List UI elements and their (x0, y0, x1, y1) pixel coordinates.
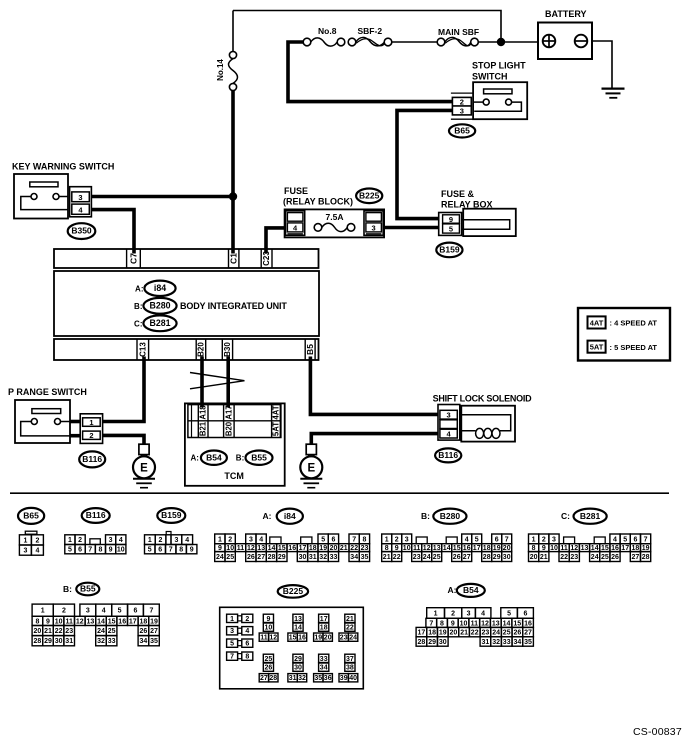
svg-text:6: 6 (245, 641, 249, 648)
body integrated unit: BODY INTEGRATED UNIT main box (54, 271, 319, 336)
svg-text:P RANGE SWITCH: P RANGE SWITCH (8, 387, 87, 397)
svg-text:24: 24 (216, 554, 224, 561)
svg-text:BATTERY: BATTERY (545, 9, 587, 19)
svg-text:24: 24 (423, 554, 431, 561)
wire: key warning switch pin3 to No.14 junction (thick) (91, 195, 233, 199)
svg-text:B54: B54 (463, 585, 479, 595)
svg-text:26: 26 (514, 630, 522, 637)
svg-text:16: 16 (118, 618, 126, 625)
legend box: 4AT / 5AT speed note (578, 308, 670, 361)
svg-text:2: 2 (159, 537, 163, 544)
connector pinout C: B281 (529, 509, 651, 562)
svg-text:20: 20 (530, 554, 538, 561)
svg-text:26: 26 (453, 554, 461, 561)
fuse SBF-2 (slow blow) (348, 37, 392, 45)
svg-text:SBF-2: SBF-2 (358, 26, 383, 36)
svg-text:21: 21 (340, 545, 348, 552)
svg-text:No.8: No.8 (318, 26, 337, 36)
svg-text:B5: B5 (305, 344, 315, 355)
svg-text:20: 20 (324, 635, 332, 642)
svg-text:3: 3 (552, 536, 556, 543)
svg-text:B:: B: (421, 511, 430, 521)
svg-text:24: 24 (97, 628, 105, 635)
svg-text:17: 17 (129, 618, 137, 625)
svg-text:1: 1 (23, 537, 27, 544)
svg-text:7: 7 (352, 536, 356, 543)
svg-text:37: 37 (346, 656, 354, 663)
svg-text:17: 17 (418, 630, 426, 637)
svg-text:4: 4 (245, 628, 249, 635)
svg-text:14: 14 (294, 625, 302, 632)
svg-text:28: 28 (642, 554, 650, 561)
connector pinout A: B54 (416, 584, 533, 646)
wire: shift lock solenoid pin4 to ground E (thick) (311, 434, 438, 445)
svg-text:18: 18 (428, 630, 436, 637)
svg-text:No.14: No.14 (216, 59, 225, 81)
svg-text:28: 28 (418, 639, 426, 646)
svg-text:18: 18 (320, 625, 328, 632)
connector pins 2/3 of stop light switch (451, 93, 473, 119)
svg-text:7.5A: 7.5A (326, 212, 344, 222)
svg-text:5: 5 (68, 547, 72, 554)
svg-text:35: 35 (314, 675, 322, 682)
svg-text:B159: B159 (439, 245, 460, 255)
svg-text:30: 30 (439, 639, 447, 646)
svg-text:35: 35 (361, 554, 369, 561)
svg-text:10: 10 (460, 620, 468, 627)
svg-text:B30: B30 (223, 342, 232, 357)
svg-text:6: 6 (332, 536, 336, 543)
svg-text:14: 14 (503, 620, 511, 627)
connector pinout B225 (fuse relay block) (220, 585, 364, 689)
svg-text:i84: i84 (154, 283, 166, 293)
junction node: key warning switch pin3 / No.14 wire (229, 192, 237, 200)
svg-text:27: 27 (524, 630, 532, 637)
svg-text:30: 30 (294, 665, 302, 672)
svg-text:4: 4 (185, 537, 189, 544)
svg-text:A18: A18 (199, 405, 208, 420)
svg-text:10: 10 (403, 545, 411, 552)
connector pins 3/4 of key warning switch (70, 187, 92, 217)
svg-text:20: 20 (450, 630, 458, 637)
svg-text:27: 27 (632, 554, 640, 561)
svg-text:9: 9 (266, 616, 270, 623)
svg-text:4: 4 (465, 536, 469, 543)
svg-text:11: 11 (471, 620, 479, 627)
svg-text:24: 24 (591, 554, 599, 561)
separator line between schematic and connector views (10, 492, 669, 494)
svg-text:8: 8 (35, 618, 39, 625)
svg-text:33: 33 (503, 639, 511, 646)
svg-text:10: 10 (265, 625, 273, 632)
svg-text:1: 1 (532, 536, 536, 543)
svg-text:3: 3 (86, 608, 90, 615)
wire: SBF-2 to MAIN SBF (392, 41, 437, 43)
body integrated unit: bottom connector strip (54, 339, 319, 360)
svg-text:34: 34 (140, 638, 148, 645)
wire: fuse block pin3 to fuse & relay box pin 5 (thick) (384, 226, 439, 230)
svg-text:31: 31 (309, 554, 317, 561)
svg-text:B55: B55 (251, 452, 267, 462)
svg-text:30: 30 (503, 554, 511, 561)
connector pinout A: i84 (215, 509, 370, 562)
svg-text:5: 5 (449, 225, 453, 234)
svg-text:CS-00837: CS-00837 (633, 726, 682, 738)
svg-text:28: 28 (268, 554, 276, 561)
wire: body unit B5 to shift lock solenoid pin 3 (thick) (310, 357, 438, 415)
svg-text:12: 12 (76, 618, 84, 625)
svg-text:21: 21 (346, 616, 354, 623)
svg-text:3: 3 (447, 411, 451, 420)
svg-text:B159: B159 (161, 510, 182, 520)
svg-text:B280: B280 (440, 511, 461, 521)
svg-text:4: 4 (447, 430, 452, 439)
connector pinout B: B55 (32, 583, 159, 646)
svg-text:10: 10 (550, 545, 558, 552)
svg-text:36: 36 (324, 675, 332, 682)
svg-text:29: 29 (278, 554, 286, 561)
svg-text:39: 39 (340, 675, 348, 682)
svg-text:3: 3 (467, 611, 471, 618)
fuse No.14 (in-line fuse on vertical wire) (229, 11, 238, 91)
svg-text:16: 16 (298, 635, 306, 642)
svg-text:22: 22 (346, 625, 354, 632)
svg-text:4: 4 (78, 205, 83, 214)
wire: No.14 fuse down to body integrated unit C1 (thick) (231, 91, 235, 254)
connector pinout B65 (18, 508, 44, 555)
svg-text:B20: B20 (197, 342, 206, 357)
svg-text:FUSE &: FUSE & (441, 189, 475, 199)
svg-text:7: 7 (169, 547, 173, 554)
svg-text:4: 4 (35, 548, 39, 555)
svg-text:11: 11 (260, 635, 268, 642)
svg-text:10: 10 (117, 547, 125, 554)
wire: key warning switch pin4 to body integrated unit C7 (thick) (91, 210, 134, 254)
ground: battery chassis ground (602, 89, 625, 98)
svg-text:23: 23 (340, 635, 348, 642)
svg-text:9: 9 (46, 618, 50, 625)
svg-text:2: 2 (89, 431, 93, 440)
svg-text:12: 12 (481, 620, 489, 627)
control module: TCM (185, 403, 285, 485)
svg-text:2: 2 (35, 537, 39, 544)
svg-text:TCM: TCM (224, 471, 244, 481)
svg-text:28: 28 (34, 638, 42, 645)
svg-text:9: 9 (451, 620, 455, 627)
svg-text:21: 21 (383, 554, 391, 561)
svg-text:3: 3 (405, 536, 409, 543)
svg-text:30: 30 (299, 554, 307, 561)
svg-text:13: 13 (492, 620, 500, 627)
svg-text:B281: B281 (149, 318, 170, 328)
svg-text:B65: B65 (454, 126, 470, 136)
svg-text:14: 14 (443, 545, 451, 552)
svg-text:B:: B: (63, 584, 72, 594)
svg-text:25: 25 (265, 656, 273, 663)
svg-text:6: 6 (134, 608, 138, 615)
svg-text:32: 32 (319, 554, 327, 561)
svg-text:8: 8 (179, 547, 183, 554)
svg-text:5AT: 5AT (590, 343, 604, 352)
connector B159 oval (fuse & relay box) (436, 243, 462, 258)
svg-text:38: 38 (346, 665, 354, 672)
svg-text:4AT: 4AT (272, 405, 281, 419)
svg-text:C7: C7 (128, 253, 138, 264)
wire: stop light switch pin3 to fuse & relay box pin 9 (thick) (397, 110, 452, 218)
svg-text:24: 24 (349, 635, 357, 642)
svg-text:11: 11 (65, 618, 73, 625)
svg-text:2: 2 (78, 537, 82, 544)
svg-text:1: 1 (385, 536, 389, 543)
svg-text:15: 15 (289, 635, 297, 642)
svg-text:6: 6 (158, 547, 162, 554)
svg-text:30: 30 (55, 638, 63, 645)
svg-text:14: 14 (97, 618, 105, 625)
fuse & relay box: FUSE & RELAY BOX (439, 189, 516, 236)
svg-text:MAIN SBF: MAIN SBF (438, 27, 479, 37)
svg-text:1: 1 (230, 616, 234, 623)
switch: KEY WARNING SWITCH (12, 162, 114, 219)
connector B116 oval (shift lock solenoid) (435, 448, 461, 462)
svg-text:FUSE: FUSE (284, 186, 308, 196)
connector pins 1/2 of P range switch (70, 414, 103, 444)
svg-text:B:: B: (236, 453, 244, 462)
svg-text:B116: B116 (86, 510, 106, 520)
svg-text:B:: B: (134, 302, 142, 311)
svg-text:27: 27 (257, 554, 265, 561)
svg-text:22: 22 (55, 628, 63, 635)
svg-text:2: 2 (395, 536, 399, 543)
svg-text:1: 1 (68, 537, 72, 544)
svg-text:33: 33 (108, 638, 116, 645)
connector B65 (stop light switch) (449, 124, 475, 137)
svg-text:29: 29 (44, 638, 52, 645)
svg-text:11: 11 (237, 545, 245, 552)
svg-text:4: 4 (481, 611, 485, 618)
ground E (P range switch side) (133, 444, 155, 488)
switch: STOP LIGHT SWITCH (472, 61, 527, 120)
svg-text:23: 23 (482, 630, 490, 637)
svg-text:34: 34 (320, 665, 328, 672)
wire: body unit C13 down to P range switch pin 1 (thick) (103, 357, 144, 422)
svg-text:4: 4 (102, 608, 106, 615)
svg-text:17: 17 (621, 545, 629, 552)
solenoid: SHIFT LOCK SOLENOID (433, 393, 533, 441)
svg-text:3: 3 (23, 548, 27, 555)
svg-text:C:: C: (134, 319, 142, 328)
fuse block: FUSE (RELAY BLOCK) with 7.5A fuse (283, 186, 384, 237)
svg-text:15: 15 (513, 620, 521, 627)
svg-text:SWITCH: SWITCH (472, 72, 508, 82)
svg-text:16: 16 (288, 545, 296, 552)
svg-text:4: 4 (613, 536, 617, 543)
svg-text:A17: A17 (224, 405, 233, 419)
connector pinout B116 (65, 508, 126, 554)
fuse MAIN SBF (slow blow) (437, 37, 478, 45)
svg-text:4: 4 (119, 537, 123, 544)
connector B350 (key warning switch) (68, 223, 96, 239)
svg-text:(RELAY BLOCK): (RELAY BLOCK) (283, 197, 353, 207)
junction node: battery feed branch (497, 38, 505, 46)
svg-text:2: 2 (62, 608, 66, 615)
svg-text:5: 5 (507, 611, 511, 618)
svg-text:6: 6 (78, 547, 82, 554)
wire: body unit B20 to TCM A18 (thick) (200, 357, 204, 408)
svg-text:1: 1 (89, 418, 93, 427)
svg-text:31: 31 (289, 675, 297, 682)
svg-text:5: 5 (118, 608, 122, 615)
svg-text:29: 29 (493, 554, 501, 561)
wire: P range switch pin2 to ground E (thick) (103, 435, 144, 444)
svg-text:SHIFT LOCK SOLENOID: SHIFT LOCK SOLENOID (433, 393, 533, 403)
svg-text:33: 33 (320, 656, 328, 663)
wire: MAIN SBF to battery positive terminal (478, 41, 538, 43)
svg-text:6: 6 (523, 611, 527, 618)
svg-text:31: 31 (65, 638, 73, 645)
svg-text:32: 32 (298, 675, 306, 682)
svg-text:34: 34 (514, 639, 522, 646)
svg-text:26: 26 (247, 554, 255, 561)
svg-text:1: 1 (434, 611, 438, 618)
svg-text:18: 18 (140, 618, 148, 625)
svg-text:19: 19 (150, 618, 158, 625)
svg-text:7: 7 (429, 620, 433, 627)
svg-text:5: 5 (623, 536, 627, 543)
svg-text:3: 3 (249, 536, 253, 543)
svg-text:7: 7 (505, 536, 509, 543)
svg-text:26: 26 (265, 665, 273, 672)
svg-text:26: 26 (611, 554, 619, 561)
svg-text:B116: B116 (82, 454, 102, 464)
svg-text:4: 4 (259, 536, 263, 543)
svg-text:3: 3 (460, 106, 464, 115)
svg-text:A:: A: (263, 511, 272, 521)
ground E (shift lock solenoid side) (300, 444, 322, 488)
svg-text:32: 32 (492, 639, 500, 646)
svg-text:5: 5 (321, 536, 325, 543)
svg-text:8: 8 (363, 536, 367, 543)
svg-text:3: 3 (109, 537, 113, 544)
svg-text:12: 12 (269, 635, 277, 642)
svg-text:16: 16 (524, 620, 532, 627)
svg-text:A:: A: (191, 453, 199, 462)
svg-text:25: 25 (503, 630, 511, 637)
svg-text:33: 33 (330, 554, 338, 561)
svg-text:17: 17 (320, 616, 328, 623)
svg-text:6: 6 (633, 536, 637, 543)
svg-text:22: 22 (393, 554, 401, 561)
svg-text:22: 22 (471, 630, 479, 637)
svg-text:2: 2 (228, 536, 232, 543)
svg-text:3: 3 (372, 223, 376, 232)
svg-text:1: 1 (218, 536, 222, 543)
svg-text:35: 35 (524, 639, 532, 646)
svg-text:A:: A: (448, 585, 457, 595)
svg-text:21: 21 (460, 630, 468, 637)
svg-text:28: 28 (269, 675, 277, 682)
svg-text:19: 19 (439, 630, 447, 637)
svg-text:C13: C13 (138, 342, 147, 357)
svg-text:2: 2 (542, 536, 546, 543)
svg-text:25: 25 (601, 554, 609, 561)
connector pinout B159 (145, 508, 197, 554)
svg-text:25: 25 (433, 554, 441, 561)
svg-text:A:: A: (135, 284, 143, 293)
svg-text:C1: C1 (229, 253, 239, 264)
svg-text:: 5 SPEED AT: : 5 SPEED AT (610, 343, 658, 352)
svg-text:: 4 SPEED AT: : 4 SPEED AT (610, 319, 658, 328)
svg-text:5: 5 (475, 536, 479, 543)
twisted pair marker across B20/B30 wires (190, 373, 245, 389)
svg-text:23: 23 (65, 628, 73, 635)
svg-text:3: 3 (230, 628, 234, 635)
svg-text:B20: B20 (224, 421, 233, 436)
wire: body unit B30 to TCM A17 (thick) (226, 357, 230, 408)
svg-text:4: 4 (293, 223, 298, 232)
svg-text:C:: C: (561, 511, 570, 521)
svg-text:8: 8 (440, 620, 444, 627)
svg-text:15: 15 (108, 618, 116, 625)
svg-text:32: 32 (97, 638, 105, 645)
svg-text:B21: B21 (199, 421, 208, 436)
svg-text:6: 6 (495, 536, 499, 543)
svg-text:C23: C23 (262, 251, 271, 266)
switch: P RANGE SWITCH (8, 387, 87, 443)
wire: battery negative to ground (592, 41, 612, 88)
svg-text:21: 21 (44, 628, 52, 635)
fuse chain input wire: from No.8 fuse down to stop light switch pin 2 (thick) (288, 42, 452, 102)
svg-text:2: 2 (451, 611, 455, 618)
svg-text:22: 22 (560, 554, 568, 561)
svg-text:1: 1 (148, 537, 152, 544)
svg-text:3: 3 (78, 193, 82, 202)
svg-text:24: 24 (492, 630, 500, 637)
svg-text:21: 21 (540, 554, 548, 561)
svg-text:28: 28 (483, 554, 491, 561)
svg-text:5AT: 5AT (272, 422, 281, 436)
svg-text:9: 9 (449, 215, 453, 224)
svg-text:8: 8 (245, 654, 249, 661)
svg-text:B65: B65 (23, 511, 39, 521)
connector B116 oval (P range switch) (79, 451, 105, 467)
svg-text:2: 2 (460, 97, 464, 106)
svg-text:25: 25 (226, 554, 234, 561)
wire: fuse block pin4 to body integrated unit C23 (thick) (266, 228, 286, 254)
svg-text:KEY WARNING SWITCH: KEY WARNING SWITCH (12, 162, 114, 172)
svg-text:4AT: 4AT (590, 318, 604, 327)
svg-text:9: 9 (109, 547, 113, 554)
svg-text:STOP LIGHT: STOP LIGHT (472, 61, 526, 71)
svg-text:B225: B225 (359, 190, 380, 200)
svg-text:7: 7 (88, 547, 92, 554)
svg-text:40: 40 (349, 675, 357, 682)
svg-text:31: 31 (482, 639, 490, 646)
svg-text:26: 26 (140, 628, 148, 635)
svg-text:13: 13 (581, 545, 589, 552)
svg-text:B116: B116 (438, 450, 458, 460)
body integrated unit: top connector strip (54, 249, 319, 268)
svg-text:B54: B54 (206, 452, 222, 462)
svg-text:B350: B350 (71, 226, 92, 236)
connector pinout B: B280 (382, 509, 512, 562)
svg-text:E: E (140, 463, 148, 475)
svg-text:17: 17 (473, 545, 481, 552)
svg-text:34: 34 (350, 554, 358, 561)
svg-text:9: 9 (190, 547, 194, 554)
svg-text:B55: B55 (80, 584, 96, 594)
svg-text:B225: B225 (283, 586, 304, 596)
svg-text:i84: i84 (284, 511, 296, 521)
